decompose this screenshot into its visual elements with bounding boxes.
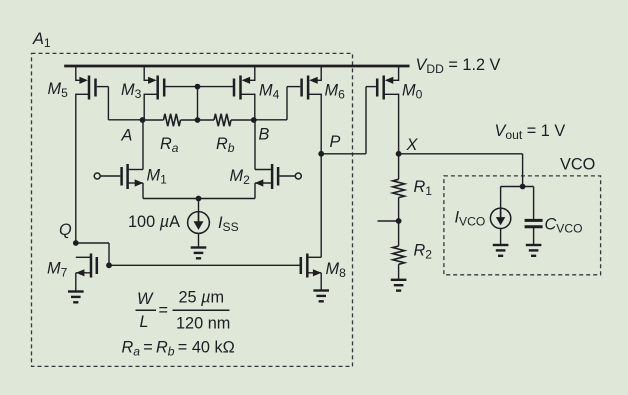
- wire node Q to gate branch: [76, 242, 109, 244]
- ground below M7: [68, 290, 84, 292]
- wire node A to Ra: [143, 119, 164, 121]
- tail junction dot: [196, 196, 202, 202]
- node P junction dot: [318, 151, 324, 157]
- VCO input junction dot: [520, 184, 526, 190]
- wire differential pair tail: [143, 198, 255, 200]
- transistor M2 channel bar: [271, 164, 274, 189]
- transistor M6 channel bar: [307, 76, 310, 100]
- wire M7 source down to ground: [75, 273, 77, 292]
- wire ISS to ground: [198, 233, 200, 247]
- transistor M7 gate bar: [96, 257, 99, 274]
- wire M0 source from VDD rail: [398, 66, 400, 81]
- wire M1 drain up to node A: [142, 120, 144, 170]
- transistor M3 gate bar: [163, 79, 166, 97]
- wire M5 gate to node A: [108, 119, 142, 121]
- transistor M3 channel bar: [156, 76, 159, 100]
- resistor Ra: [164, 114, 181, 126]
- wire gate junction down to resistor midpoint: [197, 87, 199, 120]
- fraction bar 25um/120nm: [173, 309, 230, 311]
- transistor M0 gate bar: [376, 79, 379, 97]
- wire M5 gate down: [107, 87, 109, 120]
- wire Ra to midpoint: [181, 119, 198, 121]
- wire M1 source lead: [128, 182, 143, 184]
- transistor M1 channel bar: [126, 164, 129, 189]
- ground below CVCO: [526, 244, 542, 246]
- wire M2 gate lead: [279, 175, 295, 177]
- wire IVCO to ground: [500, 228, 502, 245]
- wire M1 drain lead: [128, 169, 143, 171]
- svg-text:100 µA: 100 µA: [128, 213, 180, 231]
- wire M5 source from VDD rail: [75, 66, 77, 81]
- M8 source arrow (NMOS): [313, 269, 322, 276]
- transistor M0 channel bar: [382, 76, 385, 100]
- transistor M8 channel bar: [306, 254, 309, 278]
- resistor Rb: [214, 114, 231, 126]
- divider junction dot (R1-R2): [396, 218, 402, 224]
- wire tail down to current source: [198, 199, 200, 212]
- M1 source arrow (NMOS): [135, 179, 144, 186]
- capacitor CVCO bottom plate: [525, 225, 543, 228]
- wire CVCO to ground: [533, 228, 535, 246]
- wire M4 source from VDD rail: [254, 66, 256, 81]
- wire down into VCO: [522, 154, 524, 187]
- svg-text:25 µm: 25 µm: [179, 289, 225, 307]
- current source IVCO: [490, 208, 510, 228]
- wire node P to M0 gate: [321, 153, 366, 155]
- wire M1 gate lead: [100, 175, 120, 177]
- M6 source arrow (PMOS): [309, 77, 318, 84]
- wire VCO internal node: [501, 186, 534, 188]
- wire M8 source lead: [307, 272, 321, 274]
- svg-text:A: A: [121, 127, 133, 145]
- ground below IVCO: [493, 244, 509, 246]
- wire M3 drain lead: [144, 93, 156, 95]
- fraction bar W/L: [136, 309, 157, 311]
- wire M6 gate lead: [287, 86, 300, 88]
- wire M0 gate lead: [366, 86, 376, 88]
- current source ISS: [188, 212, 210, 234]
- M3 source arrow (PMOS): [148, 77, 157, 84]
- ground below M8: [313, 289, 329, 291]
- node B junction dot: [251, 117, 257, 123]
- wire M0 gate down: [365, 87, 367, 154]
- wire M8 source down to ground: [320, 273, 322, 291]
- wire M4 drain lead: [241, 93, 255, 95]
- wire M6 gate down: [286, 87, 288, 120]
- transistor M6 gate bar: [300, 79, 303, 97]
- midpoint junction dot (Ra-Rb): [195, 117, 201, 123]
- transistor M5 channel bar: [88, 76, 91, 100]
- feedback stub from divider: [378, 220, 399, 222]
- wire midpoint to Rb: [198, 119, 215, 121]
- amplifier A1 dashed boundary box: [32, 53, 353, 366]
- wire M1 source down to tail: [142, 183, 144, 199]
- svg-text:120 nm: 120 nm: [176, 314, 230, 332]
- capacitor CVCO top plate: [525, 219, 543, 222]
- wire M2 drain lead: [255, 169, 272, 171]
- wire M4 drain down to node B: [254, 94, 256, 120]
- M2 source arrow (NMOS): [255, 179, 263, 186]
- wire M8 drain lead: [307, 256, 321, 258]
- M0 source arrow (PMOS): [385, 77, 394, 84]
- wire M2 source lead: [255, 182, 272, 184]
- transistor M8 gate bar: [300, 257, 303, 274]
- wire Rb to node B: [231, 119, 254, 121]
- transistor M7 channel bar: [90, 254, 93, 278]
- wire M6 source from VDD rail: [320, 66, 322, 81]
- wire M5 drain down to node Q: [75, 94, 77, 243]
- wire node X to VCO: [399, 153, 523, 155]
- node A junction dot: [140, 117, 146, 123]
- wire M3 source from VDD rail: [143, 66, 145, 81]
- wire M6 gate to node B: [254, 119, 287, 121]
- wire to IVCO: [500, 187, 502, 209]
- junction dot M3/M4 gates: [195, 84, 201, 90]
- wire M5 drain lead: [76, 93, 88, 95]
- wire M3 drain down to node A: [143, 94, 145, 120]
- svg-text:VCO: VCO: [560, 156, 595, 174]
- svg-text:=: =: [159, 302, 169, 320]
- transistor M1 gate bar: [120, 167, 123, 186]
- svg-text:W: W: [137, 290, 154, 308]
- svg-text:P: P: [330, 133, 341, 151]
- resistor R2: [393, 246, 405, 264]
- wire M7 drain lead: [76, 256, 91, 258]
- M1 gate input terminal circle: [94, 173, 100, 179]
- ground below R2: [391, 279, 407, 281]
- transistor M4 gate bar: [233, 79, 236, 97]
- resistor R1: [393, 179, 405, 197]
- transistor M5 gate bar: [94, 79, 97, 97]
- svg-text:X: X: [406, 136, 419, 154]
- wire M6 drain down through node P to M8 drain: [320, 94, 322, 258]
- wire M6 drain lead: [308, 93, 321, 95]
- ground below ISS: [191, 246, 207, 248]
- VDD supply rail: [64, 65, 409, 68]
- svg-text:L: L: [140, 313, 149, 331]
- M4 source arrow (PMOS): [242, 77, 251, 84]
- wire R2 to ground: [398, 264, 400, 280]
- wire R1 to divider junction: [398, 198, 400, 246]
- svg-text:B: B: [259, 126, 270, 144]
- M2 gate input terminal circle: [295, 173, 301, 179]
- transistor M4 channel bar: [239, 76, 242, 100]
- node Q junction dot: [73, 240, 79, 246]
- wire M5 gate lead: [97, 86, 109, 88]
- wire to CVCO: [533, 187, 535, 220]
- M5 source arrow (PMOS): [79, 77, 88, 84]
- wire gate branch down: [108, 243, 110, 265]
- wire M7 gate to M8 gate: [109, 264, 300, 266]
- node X junction dot: [396, 151, 402, 157]
- svg-text:Q: Q: [59, 221, 72, 239]
- junction dot M7 gate: [106, 262, 112, 268]
- wire M3 gate to M4 gate: [166, 86, 234, 88]
- M7 source arrow (NMOS): [76, 269, 85, 276]
- wire M7 source lead: [76, 272, 91, 274]
- wire M2 drain up to node B: [254, 120, 256, 170]
- VCO dashed boundary box: [444, 176, 601, 275]
- transistor M2 gate bar: [277, 167, 280, 186]
- wire M0 drain down through node X to R1: [398, 94, 400, 180]
- wire M2 source down to tail: [254, 183, 256, 199]
- wire M0 drain lead: [384, 93, 399, 95]
- svg-text:Vout = 1 V: Vout = 1 V: [495, 122, 566, 142]
